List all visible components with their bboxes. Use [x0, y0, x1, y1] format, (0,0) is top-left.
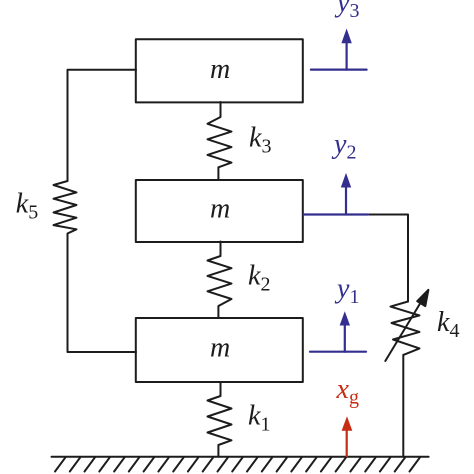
spring k5	[54, 181, 77, 237]
arrow xg (ground excitation)	[342, 416, 353, 456]
spring k4 (variable)	[391, 302, 420, 355]
spring k3	[208, 102, 232, 180]
wire from k5 bottom to mass m1	[68, 237, 137, 353]
svg-text:xg: xg	[336, 374, 359, 409]
svg-text:k5: k5	[16, 189, 38, 224]
svg-text:k3: k3	[249, 122, 271, 157]
spring k2	[208, 242, 232, 319]
wire from k4 bottom to ground	[402, 355, 404, 457]
node y3 reference tick	[311, 68, 367, 70]
spring k1	[208, 382, 232, 457]
mass m1 (bottom)	[136, 318, 303, 382]
svg-text:k1: k1	[248, 401, 270, 436]
mass m2 (middle)	[136, 180, 303, 242]
svg-text:k4: k4	[437, 307, 459, 342]
wire from y2 line to k4 top	[366, 215, 408, 302]
arrow y1	[344, 324, 346, 352]
node y1 reference tick	[310, 351, 366, 353]
node y2 reference tick	[304, 213, 369, 215]
svg-text:y2: y2	[331, 129, 356, 164]
arrow y3	[346, 42, 348, 70]
svg-text:y3: y3	[334, 0, 359, 22]
wire from k5 top to mass m3	[68, 70, 137, 181]
mass m3 (top)	[136, 39, 303, 102]
blue displacement markers	[304, 29, 369, 352]
ground	[52, 457, 429, 472]
svg-text:m: m	[210, 193, 230, 224]
arrow y2	[345, 186, 347, 215]
svg-text:m: m	[210, 332, 230, 363]
svg-text:m: m	[210, 54, 230, 85]
svg-text:k2: k2	[248, 261, 270, 296]
arrow through k4 (variable stiffness)	[385, 300, 422, 362]
svg-text:y1: y1	[334, 274, 359, 309]
